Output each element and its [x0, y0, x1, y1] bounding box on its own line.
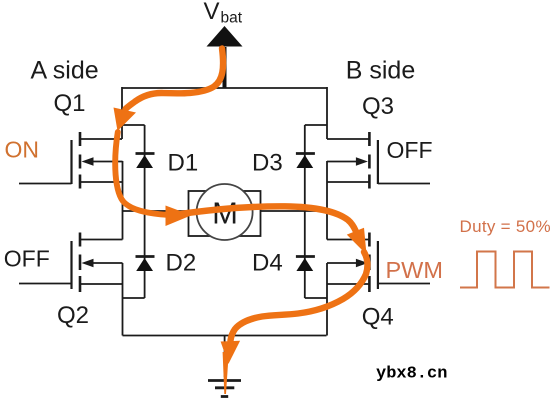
diode D3: [296, 154, 315, 169]
wire motor rail left: [123, 210, 189, 212]
svg-text:A side: A side: [31, 57, 99, 85]
svg-text:D1: D1: [168, 149, 199, 176]
svg-text:OFF: OFF: [4, 246, 50, 272]
wire D2 bottom step: [123, 297, 145, 299]
current flow arrow from Vbat to Q1 drain: [114, 49, 224, 132]
svg-text:OFF: OFF: [387, 137, 433, 163]
wire right mid column (B phase node): [326, 161, 328, 240]
current flow arrow through Q4 to ground: [221, 252, 368, 394]
motor M: [189, 184, 261, 240]
wire left diode column: [144, 125, 146, 298]
wire D4 bottom step: [305, 297, 327, 299]
svg-text:PWM: PWM: [386, 257, 443, 283]
wire left mid column (A phase node): [122, 161, 124, 240]
label Vbat: [204, 0, 243, 27]
svg-text:Q4: Q4: [362, 304, 394, 331]
svg-text:Q3: Q3: [362, 93, 394, 120]
svg-text:B side: B side: [346, 57, 415, 85]
svg-text:M: M: [212, 196, 238, 231]
wire right diode column: [304, 125, 306, 298]
svg-text:D3: D3: [252, 149, 283, 176]
svg-text:ON: ON: [5, 137, 40, 163]
diode D4: [296, 257, 315, 272]
wire right bottom column: [326, 263, 328, 336]
wire left bottom column: [122, 263, 124, 336]
diode D1: [136, 154, 155, 169]
svg-text:Duty = 50%: Duty = 50%: [460, 217, 551, 236]
PWM waveform: [460, 252, 550, 288]
svg-text:D4: D4: [252, 249, 283, 276]
current flow arrow through motor to Q4 drain: [178, 206, 367, 254]
svg-text:Q2: Q2: [57, 302, 89, 329]
wire ground stem: [224, 336, 226, 378]
transistor Q4: [327, 233, 430, 293]
svg-text:Q1: Q1: [53, 90, 85, 117]
transistor Q3: [327, 132, 430, 189]
wire top rail: [122, 87, 327, 89]
svg-text:V: V: [204, 0, 220, 25]
svg-text:D2: D2: [166, 249, 197, 276]
current flow arrow through Q1 to motor: [115, 132, 191, 226]
wire bottom rail: [123, 335, 327, 337]
ground: [208, 381, 241, 397]
diode D2: [136, 257, 155, 272]
wire right drain column: [326, 87, 328, 139]
wire left drain column: [121, 87, 123, 139]
svg-text:bat: bat: [221, 10, 243, 27]
transistor Q2: [19, 233, 123, 293]
transistor Q1: [19, 132, 123, 189]
wire D3 top step: [305, 124, 327, 126]
wire D1 top step: [122, 124, 145, 126]
wire motor rail right: [261, 210, 328, 212]
node Vbat supply symbol: [207, 26, 243, 88]
svg-text:ybx8.cn: ybx8.cn: [376, 365, 447, 384]
